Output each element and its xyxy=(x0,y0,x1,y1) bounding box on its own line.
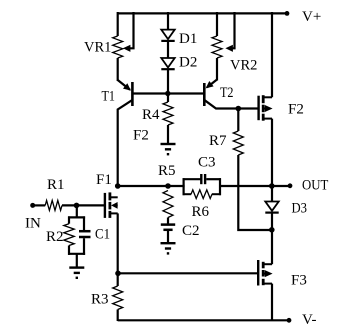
wire rail to D1 xyxy=(167,12,169,30)
node V+ terminal xyxy=(285,11,290,16)
wire box to ground xyxy=(76,254,78,268)
svg-text:IN: IN xyxy=(25,216,41,232)
wire T2 emitter xyxy=(207,80,217,88)
ground below R4 xyxy=(161,143,176,145)
diode D2 xyxy=(161,58,174,68)
node OUT junction xyxy=(269,183,275,189)
wire F2 source to OUT node xyxy=(271,119,273,187)
resistor R6 xyxy=(191,190,212,199)
wire R2 bottom lead xyxy=(68,246,70,255)
wire junction to R2 C1 box xyxy=(76,205,78,218)
wire box left edge xyxy=(183,178,185,195)
ground below C2 xyxy=(161,242,176,244)
wire T1 emitter xyxy=(118,80,130,90)
wire T1 base to T2 base xyxy=(132,92,204,94)
transistor F2 xyxy=(257,96,259,121)
svg-text:VR1: VR1 xyxy=(84,40,111,56)
wire VR1 to T1 emitter xyxy=(117,58,119,81)
resistor R3 xyxy=(113,286,123,310)
wire node to R7 xyxy=(237,109,239,132)
node IN terminal xyxy=(30,203,35,208)
wiper arrow VR1 xyxy=(123,45,130,52)
svg-text:T1: T1 xyxy=(102,89,116,105)
wire C1 top lead xyxy=(83,216,85,230)
node R1 R2 junction xyxy=(74,203,80,209)
svg-text:C2: C2 xyxy=(182,223,200,239)
wire C3 top branch xyxy=(183,178,201,180)
transistor F1 xyxy=(104,193,106,218)
wire D3 to node xyxy=(271,213,273,231)
svg-text:R1: R1 xyxy=(47,177,65,193)
wire V+ rail xyxy=(117,12,287,14)
transistor F3 xyxy=(257,260,259,286)
node V- terminal xyxy=(287,318,292,323)
wire VR2 wiper arm xyxy=(229,12,235,48)
wire rail to F2 drain xyxy=(271,12,273,97)
resistor R4 xyxy=(163,102,173,125)
capacitor C2 xyxy=(161,223,175,226)
wire node to F3 drain xyxy=(271,230,273,264)
node F1 drain junction xyxy=(115,183,121,189)
diode D1 xyxy=(161,30,174,39)
wire F1 source down xyxy=(117,213,119,274)
wiper arrow VR2 xyxy=(225,45,233,52)
wire IN to R1 xyxy=(33,204,46,206)
svg-text:F3: F3 xyxy=(291,273,307,289)
capacitor C1 xyxy=(79,230,91,233)
wire box to OUT xyxy=(219,185,290,187)
wire C2 to ground xyxy=(167,231,169,243)
wire R5 to C2 xyxy=(167,218,169,224)
wire OUT node to D3 xyxy=(271,186,273,202)
resistor R2 xyxy=(64,224,74,246)
node OUT terminal xyxy=(288,183,293,188)
wire R2C1 top bar xyxy=(68,216,85,218)
svg-text:D1: D1 xyxy=(179,31,197,47)
resistor VR2 xyxy=(212,36,222,58)
wire C1 bottom lead xyxy=(83,238,85,255)
wire R7 to D3 cathode xyxy=(238,155,272,230)
wire node to F3 gate xyxy=(118,272,258,274)
emitter arrow T1 xyxy=(123,83,131,90)
svg-text:D2: D2 xyxy=(179,55,197,71)
wire T1 collector xyxy=(118,100,132,187)
node T2 collector junction xyxy=(236,106,242,112)
svg-text:R7: R7 xyxy=(209,133,227,149)
svg-text:D3: D3 xyxy=(292,201,308,217)
svg-text:C1: C1 xyxy=(95,227,110,243)
wire VR2 top xyxy=(216,12,218,36)
wire base node to R4 xyxy=(167,94,169,103)
wire V- rail xyxy=(118,319,289,321)
transistor T1 base bar xyxy=(131,82,134,106)
svg-text:R5: R5 xyxy=(158,163,176,179)
wire C3 to box right xyxy=(206,178,221,180)
svg-text:F2: F2 xyxy=(133,128,149,144)
wire D2 to base node xyxy=(167,69,169,94)
wire VR1 wiper arm xyxy=(127,12,134,48)
wire box right edge xyxy=(219,178,221,195)
diode D3 xyxy=(265,202,278,211)
wire R3 to rail xyxy=(117,310,119,322)
svg-text:F2: F2 xyxy=(288,102,304,118)
wire D1 to D2 xyxy=(167,41,169,59)
svg-text:R4: R4 xyxy=(142,107,160,123)
node D3 cathode junction xyxy=(269,227,275,233)
resistor R1 xyxy=(45,200,62,210)
resistor R7 xyxy=(233,131,243,155)
svg-text:V+: V+ xyxy=(302,9,321,25)
wire R6 left lead xyxy=(183,193,192,195)
svg-text:R3: R3 xyxy=(91,292,109,308)
node R5 junction xyxy=(165,183,171,189)
node base junction xyxy=(165,91,170,96)
resistor R5 xyxy=(163,191,173,218)
capacitor C3 xyxy=(200,174,202,184)
wire F1 drain node to compensation box xyxy=(118,185,185,187)
svg-text:VR2: VR2 xyxy=(230,58,257,74)
svg-text:OUT: OUT xyxy=(302,178,329,194)
ground below R2 C1 xyxy=(69,266,84,268)
svg-text:R2: R2 xyxy=(46,229,64,245)
wire R2 top lead xyxy=(68,216,70,223)
wire R1 to F1 gate xyxy=(62,204,104,206)
node F1 source junction xyxy=(115,271,121,277)
svg-text:V-: V- xyxy=(302,312,316,328)
wire F3 source to rail xyxy=(271,284,273,321)
wire VR1 top xyxy=(117,12,119,36)
wire R6 right lead xyxy=(212,193,221,195)
wire R2C1 bottom bar xyxy=(68,253,85,255)
svg-text:T2: T2 xyxy=(220,85,234,101)
svg-text:F1: F1 xyxy=(96,172,112,188)
resistor VR1 xyxy=(113,36,123,58)
wire R4 to ground xyxy=(167,125,169,144)
resistor R3 top lead xyxy=(117,273,119,286)
svg-text:C3: C3 xyxy=(198,155,216,171)
wire T2 collector xyxy=(205,100,259,108)
svg-text:R6: R6 xyxy=(192,204,210,220)
transistor T2 base bar xyxy=(203,83,206,106)
emitter arrow T2 xyxy=(206,81,214,88)
wire VR2 to T2 emitter xyxy=(216,58,218,81)
